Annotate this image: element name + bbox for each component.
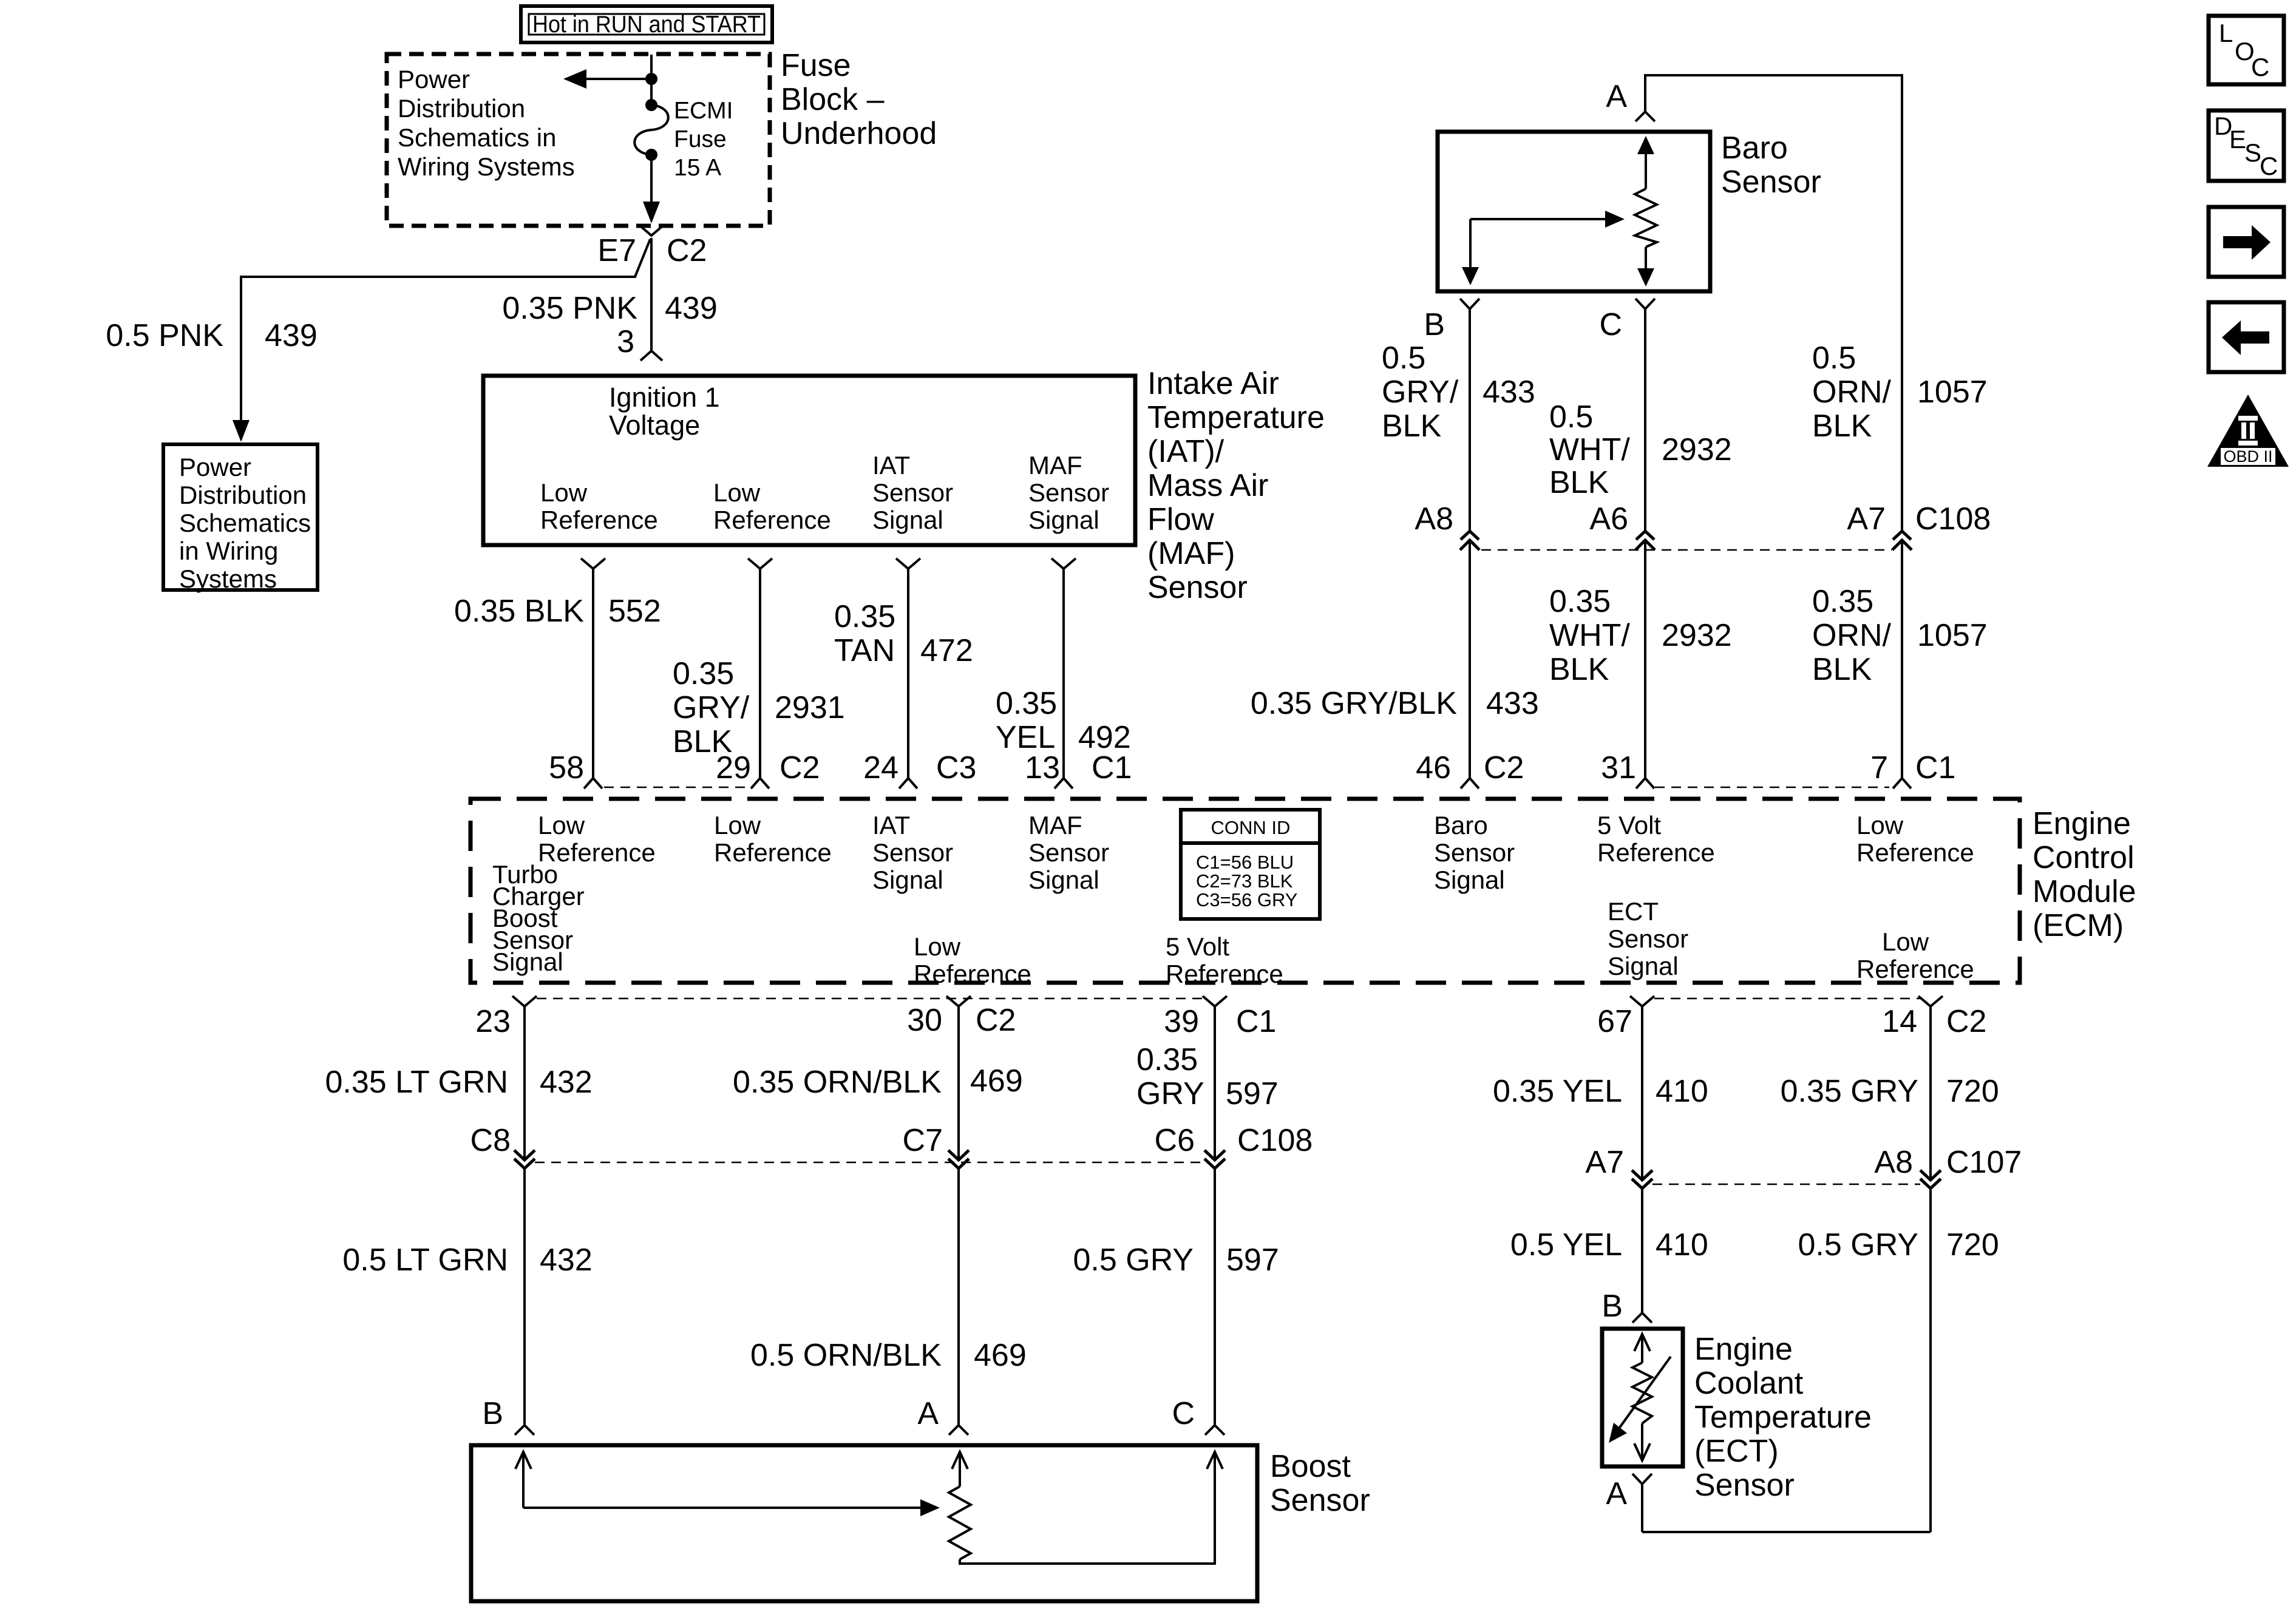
svg-text:24: 24 bbox=[863, 750, 898, 785]
wire: fuse output arrow down to connector C2 pin E7 bbox=[643, 155, 660, 223]
wire: dashed inline connector C108 row bbox=[1481, 549, 1892, 551]
svg-text:Sensor: Sensor bbox=[1434, 838, 1515, 867]
label: ECM pin 46 C2 bbox=[1416, 750, 1524, 785]
svg-text:C107: C107 bbox=[1946, 1145, 2022, 1180]
svg-text:Sensor: Sensor bbox=[1028, 838, 1109, 867]
label: 0.5 YEL 410 bbox=[1510, 1227, 1708, 1263]
label: ECM Low Reference (pin 7) bbox=[1856, 811, 1974, 867]
svg-text:Low: Low bbox=[714, 811, 761, 839]
node: forward arrow icon bbox=[2209, 207, 2284, 277]
wire: pin 5 MAF Sensor Signal 0.35 YEL 492 bbox=[1051, 558, 1076, 788]
svg-text:GRY/: GRY/ bbox=[673, 690, 750, 725]
label: ECM pin 24 C3 bbox=[863, 750, 976, 785]
node: Power Distribution Schematics in Wiring Systems (reference box) bbox=[163, 444, 318, 593]
svg-text:Signal: Signal bbox=[1028, 866, 1099, 894]
svg-text:0.35: 0.35 bbox=[834, 599, 895, 634]
wire: ECT pin A return to 720 bbox=[1642, 1531, 1931, 1533]
svg-text:GRY/: GRY/ bbox=[1382, 375, 1459, 410]
connector: pin 3 of IAT/MAF sensor bbox=[640, 351, 662, 361]
svg-text:58: 58 bbox=[549, 750, 584, 785]
node: back arrow icon bbox=[2209, 302, 2284, 372]
svg-text:31: 31 bbox=[1601, 750, 1636, 785]
svg-text:472: 472 bbox=[920, 633, 973, 668]
svg-text:A6: A6 bbox=[1589, 501, 1628, 537]
svg-text:A7: A7 bbox=[1847, 501, 1886, 537]
svg-text:0.5 YEL: 0.5 YEL bbox=[1510, 1227, 1622, 1263]
svg-text:C2: C2 bbox=[1946, 1004, 1986, 1039]
svg-text:C6: C6 bbox=[1155, 1123, 1195, 1158]
svg-text:469: 469 bbox=[970, 1063, 1023, 1099]
svg-text:Mass Air: Mass Air bbox=[1147, 468, 1268, 503]
svg-text:Voltage: Voltage bbox=[609, 410, 700, 441]
wire: 0.5 PNK 439 branch to Power Distribution Schematics bbox=[233, 239, 650, 442]
node: Hot in RUN and START title box bbox=[521, 6, 772, 42]
connector: ECM pin 39 bbox=[1203, 996, 1227, 1160]
svg-text:13: 13 bbox=[1025, 750, 1060, 785]
svg-text:5 Volt: 5 Volt bbox=[1597, 811, 1661, 839]
svg-text:C2: C2 bbox=[976, 1003, 1016, 1038]
connector: ECM pin 14 bbox=[1918, 996, 1943, 1180]
label: Engine Control Module (ECM) bbox=[2033, 806, 2136, 943]
svg-text:CONN ID: CONN ID bbox=[1211, 817, 1291, 838]
svg-text:ORN/: ORN/ bbox=[1812, 618, 1892, 653]
svg-text:C108: C108 bbox=[1915, 501, 1991, 537]
svg-text:0.5 GRY: 0.5 GRY bbox=[1073, 1242, 1194, 1278]
label: 0.35 ORN/BLK 1057 bbox=[1812, 584, 1988, 687]
component: IAT/MAF sensor box bbox=[483, 376, 1135, 545]
svg-text:Reference: Reference bbox=[713, 506, 831, 534]
wire: dashed link pins 31-7 bbox=[1655, 787, 1889, 788]
svg-text:WHT/: WHT/ bbox=[1549, 618, 1630, 653]
svg-text:29: 29 bbox=[716, 750, 751, 785]
svg-text:2931: 2931 bbox=[775, 690, 845, 725]
connector C108 pin A6 bbox=[1635, 531, 1655, 550]
wire: dashed link pins 23-30-39 bbox=[537, 998, 1204, 1000]
svg-text:Reference: Reference bbox=[1597, 838, 1715, 867]
svg-text:Low: Low bbox=[914, 932, 961, 961]
svg-text:410: 410 bbox=[1656, 1227, 1708, 1263]
svg-text:Engine: Engine bbox=[2033, 806, 2131, 841]
svg-text:39: 39 bbox=[1164, 1004, 1199, 1039]
svg-text:Fuse: Fuse bbox=[781, 48, 851, 83]
svg-text:Block –: Block – bbox=[781, 82, 885, 117]
svg-text:Sensor: Sensor bbox=[1147, 570, 1248, 605]
svg-text:Flow: Flow bbox=[1147, 502, 1214, 537]
connector C107 pin A7 bbox=[1632, 1170, 1652, 1188]
label: ECM Turbo Charger Boost Sensor Signal bbox=[492, 860, 585, 976]
wire: pin 2 IAT Sensor Signal 0.35 TAN 472 bbox=[896, 558, 920, 788]
label: ECM MAF Sensor Signal bbox=[1028, 811, 1109, 894]
svg-text:0.35: 0.35 bbox=[1136, 1042, 1198, 1077]
svg-text:Baro: Baro bbox=[1434, 811, 1488, 839]
svg-text:Sensor: Sensor bbox=[872, 478, 953, 507]
component: Engine Coolant Temperature (ECT) Sensor box bbox=[1602, 1329, 1683, 1466]
svg-text:BLK: BLK bbox=[1382, 408, 1442, 444]
label: ECM Low Reference (pin 30) bbox=[914, 932, 1031, 988]
wire: 0.35 WHT/BLK 2932 to ECM pin 31 bbox=[1636, 540, 1654, 788]
svg-text:C3=56 GRY: C3=56 GRY bbox=[1196, 889, 1297, 910]
svg-text:B: B bbox=[1601, 1289, 1623, 1324]
svg-text:0.5: 0.5 bbox=[1549, 399, 1593, 435]
svg-text:597: 597 bbox=[1226, 1076, 1279, 1111]
svg-text:0.35 GRY: 0.35 GRY bbox=[1781, 1074, 1918, 1109]
label: C6 C108 bbox=[1155, 1123, 1313, 1158]
svg-text:C2: C2 bbox=[667, 233, 707, 268]
svg-text:Control: Control bbox=[2033, 840, 2135, 875]
wire: baro wiper arrow bbox=[1462, 211, 1625, 285]
node: LOC icon bbox=[2209, 16, 2284, 84]
svg-text:439: 439 bbox=[265, 318, 318, 353]
svg-text:Reference: Reference bbox=[540, 506, 658, 534]
wire: dashed link pins 58-29 bbox=[604, 787, 750, 788]
svg-text:0.35 ORN/BLK: 0.35 ORN/BLK bbox=[733, 1065, 942, 1100]
svg-text:BLK: BLK bbox=[1812, 652, 1872, 687]
svg-text:Low: Low bbox=[1856, 811, 1904, 839]
svg-text:Baro: Baro bbox=[1721, 131, 1788, 166]
svg-text:Wiring Systems: Wiring Systems bbox=[398, 152, 575, 181]
svg-text:Low: Low bbox=[540, 478, 588, 507]
label: 0.35 GRY 720 bbox=[1781, 1074, 1999, 1109]
svg-text:1057: 1057 bbox=[1917, 375, 1988, 410]
svg-text:IAT: IAT bbox=[872, 811, 910, 839]
svg-text:A: A bbox=[917, 1396, 939, 1431]
svg-text:C108: C108 bbox=[1237, 1123, 1313, 1158]
svg-text:IAT: IAT bbox=[872, 451, 910, 480]
connector C8 bbox=[514, 1150, 535, 1168]
svg-text:MAF: MAF bbox=[1028, 811, 1082, 839]
svg-text:BLK: BLK bbox=[1549, 465, 1609, 500]
svg-text:720: 720 bbox=[1946, 1227, 1999, 1263]
svg-text:Signal: Signal bbox=[1608, 952, 1679, 980]
label: ECM pin 30 C2 bbox=[907, 1003, 1016, 1038]
node: DESC icon bbox=[2209, 110, 2284, 181]
label: 0.5 LT GRN 432 bbox=[342, 1242, 592, 1278]
svg-text:C7: C7 bbox=[903, 1123, 943, 1158]
svg-text:Reference: Reference bbox=[1856, 838, 1974, 867]
svg-text:Low: Low bbox=[713, 478, 761, 507]
svg-text:C: C bbox=[1172, 1396, 1195, 1431]
svg-text:2932: 2932 bbox=[1662, 618, 1732, 653]
label: 0.35 GRY/BLK 433 bbox=[1251, 686, 1539, 721]
node: junction dot bbox=[645, 73, 657, 85]
label: ECM Low Reference (pin 14) bbox=[1856, 927, 1974, 983]
svg-text:A8: A8 bbox=[1415, 501, 1453, 537]
label: A8 C107 bbox=[1874, 1145, 2022, 1180]
svg-text:0.35 YEL: 0.35 YEL bbox=[1493, 1074, 1622, 1109]
svg-text:Module: Module bbox=[2033, 874, 2136, 909]
svg-text:410: 410 bbox=[1656, 1074, 1708, 1109]
svg-text:A: A bbox=[1606, 1476, 1627, 1511]
svg-text:3: 3 bbox=[617, 324, 634, 359]
svg-text:Power: Power bbox=[179, 453, 251, 481]
svg-text:Schematics: Schematics bbox=[179, 509, 311, 537]
wire: 0.5 GRY 597 to Boost pin C bbox=[1205, 1168, 1224, 1435]
svg-text:552: 552 bbox=[608, 594, 661, 629]
wire: 0.5 GRY 720 to ECT pin A loop bbox=[1929, 1188, 1932, 1532]
svg-text:C2: C2 bbox=[779, 750, 820, 785]
svg-text:Systems: Systems bbox=[179, 564, 277, 593]
label: 0.35 LT GRN 432 bbox=[325, 1065, 592, 1100]
wire: Baro pin A to 0.5 ORN/BLK 1057 loop bbox=[1645, 75, 1902, 531]
svg-text:1057: 1057 bbox=[1917, 618, 1988, 653]
svg-text:0.5 ORN/BLK: 0.5 ORN/BLK bbox=[750, 1338, 942, 1373]
label: ECM Low Reference (pin 58) bbox=[538, 811, 656, 867]
wire: dashed inline connector row C107 bbox=[1652, 1184, 1920, 1185]
connector C2 pin E7 (fuse block output) bbox=[639, 225, 664, 236]
connector: ECT pin A bbox=[1632, 1474, 1652, 1532]
svg-text:MAF: MAF bbox=[1028, 451, 1082, 480]
svg-text:C2: C2 bbox=[1484, 750, 1524, 785]
svg-text:Signal: Signal bbox=[492, 947, 563, 976]
wire: dashed link pins 67-14 bbox=[1654, 998, 1920, 1000]
wire: dashed inline connector row C8-C7-C6 bbox=[535, 1162, 1204, 1164]
svg-text:0.5: 0.5 bbox=[1812, 341, 1856, 376]
svg-text:0.5 LT GRN: 0.5 LT GRN bbox=[342, 1242, 508, 1278]
svg-text:C1: C1 bbox=[1236, 1004, 1276, 1039]
label: 0.5 GRY 720 bbox=[1798, 1227, 1999, 1263]
svg-text:0.35 BLK: 0.35 BLK bbox=[454, 594, 584, 629]
svg-text:Sensor: Sensor bbox=[1028, 478, 1109, 507]
resistor: ECT thermistor element bbox=[1609, 1334, 1671, 1460]
label: A7 C108 bbox=[1847, 501, 1991, 537]
svg-text:C1: C1 bbox=[1092, 750, 1132, 785]
svg-text:C1=56 BLU: C1=56 BLU bbox=[1196, 852, 1294, 873]
svg-text:Engine: Engine bbox=[1694, 1332, 1793, 1367]
svg-text:Sensor: Sensor bbox=[1608, 924, 1688, 953]
connector: Baro pin C bbox=[1635, 299, 1655, 531]
svg-text:B: B bbox=[1424, 307, 1445, 342]
label: Boost Sensor bbox=[1270, 1449, 1370, 1518]
svg-text:Sensor: Sensor bbox=[872, 838, 953, 867]
svg-text:Low: Low bbox=[538, 811, 585, 839]
label: ECM Baro Sensor Signal bbox=[1434, 811, 1515, 894]
svg-text:23: 23 bbox=[475, 1004, 511, 1039]
connector: ECM pin 30 bbox=[946, 996, 971, 1160]
label: 0.5 ORN/BLK 1057 (baro A upper) bbox=[1812, 341, 1988, 444]
svg-text:Reference: Reference bbox=[1856, 955, 1974, 983]
svg-text:433: 433 bbox=[1486, 686, 1539, 721]
wire: 0.5 LT GRN 432 to Boost pin B bbox=[515, 1168, 534, 1435]
svg-text:Intake Air: Intake Air bbox=[1147, 366, 1279, 401]
svg-text:720: 720 bbox=[1946, 1074, 1999, 1109]
svg-text:Reference: Reference bbox=[1166, 960, 1283, 988]
label: 0.35 TAN 472 bbox=[834, 599, 973, 668]
label: 0.35 ORN/BLK 469 bbox=[733, 1063, 1023, 1100]
svg-text:Temperature: Temperature bbox=[1694, 1400, 1872, 1435]
wire: boost internal resistor to pin C bbox=[960, 1452, 1223, 1564]
svg-text:C: C bbox=[2260, 152, 2278, 180]
svg-text:(MAF): (MAF) bbox=[1147, 536, 1235, 571]
label: 0.35 BLK 552 bbox=[454, 594, 661, 629]
svg-text:0.35: 0.35 bbox=[1812, 584, 1873, 619]
svg-text:BLK: BLK bbox=[1549, 652, 1609, 687]
svg-text:0.35 GRY/BLK: 0.35 GRY/BLK bbox=[1251, 686, 1457, 721]
label: 0.5 WHT/BLK 2932 (baro C upper) bbox=[1549, 399, 1732, 500]
svg-text:Underhood: Underhood bbox=[781, 116, 937, 151]
connector C6 bbox=[1204, 1150, 1225, 1168]
svg-text:46: 46 bbox=[1416, 750, 1451, 785]
svg-text:C8: C8 bbox=[470, 1123, 511, 1158]
component: Engine Control Module (ECM) dashed box bbox=[470, 799, 2020, 983]
svg-text:469: 469 bbox=[974, 1338, 1027, 1373]
svg-text:Fuse: Fuse bbox=[674, 126, 727, 152]
svg-text:L: L bbox=[2219, 19, 2233, 47]
svg-text:C: C bbox=[1599, 307, 1622, 342]
svg-text:B: B bbox=[482, 1396, 503, 1431]
wire: boost internal pin B wiper feed bbox=[515, 1452, 940, 1516]
svg-text:Sensor: Sensor bbox=[1270, 1483, 1370, 1518]
svg-text:C3: C3 bbox=[936, 750, 976, 785]
svg-text:Coolant: Coolant bbox=[1694, 1366, 1804, 1401]
svg-text:30: 30 bbox=[907, 1003, 942, 1038]
svg-text:14: 14 bbox=[1882, 1004, 1917, 1039]
label: Intake Air Temperature (IAT)/ Mass Air Flow (MAF) Sensor bbox=[1147, 366, 1325, 605]
label: ECM pin 29 C2 bbox=[716, 750, 820, 785]
node: CONN ID legend box bbox=[1181, 810, 1320, 919]
svg-text:BLK: BLK bbox=[1812, 408, 1872, 444]
label: ECM 5 Volt Reference (pin 31) bbox=[1597, 811, 1715, 867]
connector: ECM pin 23 bbox=[512, 996, 537, 1160]
label: ECM 5 Volt Reference (pin 39) bbox=[1166, 932, 1283, 988]
label: Engine Coolant Temperature (ECT) Sensor bbox=[1694, 1332, 1872, 1503]
component: Boost Sensor box bbox=[471, 1445, 1257, 1601]
wire: 0.35 GRY/BLK 433 to ECM pin 46 bbox=[1461, 540, 1479, 788]
label: Baro Sensor bbox=[1721, 131, 1821, 200]
svg-text:WHT/: WHT/ bbox=[1549, 432, 1630, 467]
svg-text:Boost: Boost bbox=[1270, 1449, 1351, 1484]
svg-text:2932: 2932 bbox=[1662, 432, 1732, 467]
svg-text:(ECT): (ECT) bbox=[1694, 1434, 1779, 1469]
svg-text:0.5 PNK: 0.5 PNK bbox=[106, 318, 223, 353]
svg-text:Reference: Reference bbox=[714, 838, 832, 867]
svg-text:0.35 LT GRN: 0.35 LT GRN bbox=[325, 1065, 508, 1100]
svg-text:433: 433 bbox=[1483, 375, 1535, 410]
svg-text:OBD II: OBD II bbox=[2223, 447, 2272, 466]
label: ECM pin 39 C1 bbox=[1164, 1004, 1276, 1039]
svg-text:0.5 GRY: 0.5 GRY bbox=[1798, 1227, 1918, 1263]
label: 0.35 GRY/BLK 2931 bbox=[673, 656, 845, 759]
connector C7 bbox=[948, 1150, 969, 1168]
resistor: baro potentiometer element bbox=[1635, 136, 1657, 286]
node: OBD II icon bbox=[2207, 395, 2289, 467]
svg-text:A8: A8 bbox=[1874, 1145, 1913, 1180]
svg-text:Sensor: Sensor bbox=[1721, 164, 1821, 200]
label: 0.35 WHT/BLK 2932 bbox=[1549, 584, 1732, 687]
label: 0.35 YEL 410 bbox=[1493, 1074, 1708, 1109]
label: ECM pin 14 C2 bbox=[1882, 1004, 1986, 1039]
svg-text:15 A: 15 A bbox=[674, 155, 721, 181]
label: ECM ECT Sensor Signal bbox=[1608, 897, 1688, 980]
svg-text:A7: A7 bbox=[1585, 1145, 1624, 1180]
svg-text:432: 432 bbox=[540, 1242, 593, 1278]
svg-text:0.5: 0.5 bbox=[1382, 341, 1425, 376]
wire: pin 4 Low Reference 0.35 GRY/BLK 2931 bbox=[748, 558, 772, 788]
resistor: boost potentiometer element bbox=[949, 1452, 971, 1559]
svg-text:E7: E7 bbox=[597, 233, 636, 268]
label: ECM pin 7 C1 bbox=[1870, 750, 1955, 785]
label: ECM Low Reference (pin 29) bbox=[714, 811, 832, 867]
svg-text:Temperature: Temperature bbox=[1147, 400, 1325, 435]
svg-text:S: S bbox=[2244, 138, 2261, 167]
svg-text:Distribution: Distribution bbox=[398, 94, 525, 123]
svg-text:Reference: Reference bbox=[914, 960, 1031, 988]
wire: arrow to Power Distribution Schematics (left) bbox=[563, 69, 651, 89]
connector C108 pin A7 bbox=[1892, 531, 1912, 550]
wire: 0.5 YEL 410 to ECT pin B bbox=[1632, 1188, 1652, 1323]
wire: pin 1 Low Reference 0.35 BLK 552 bbox=[581, 558, 605, 788]
svg-text:C2=73 BLK: C2=73 BLK bbox=[1196, 870, 1293, 892]
connector: ECM pin 67 bbox=[1630, 996, 1654, 1180]
svg-text:ECMI: ECMI bbox=[674, 98, 733, 124]
svg-text:Signal: Signal bbox=[1028, 506, 1099, 534]
svg-text:0.35 PNK: 0.35 PNK bbox=[502, 291, 637, 326]
svg-text:67: 67 bbox=[1597, 1004, 1632, 1039]
svg-text:C1: C1 bbox=[1915, 750, 1955, 785]
connector: Baro pin B bbox=[1460, 299, 1479, 531]
svg-text:0.35: 0.35 bbox=[673, 656, 734, 691]
label: ECM IAT Sensor Signal bbox=[872, 811, 953, 894]
svg-text:439: 439 bbox=[665, 291, 718, 326]
svg-text:Signal: Signal bbox=[1434, 866, 1505, 894]
svg-text:C: C bbox=[2251, 53, 2269, 81]
svg-text:Signal: Signal bbox=[872, 506, 943, 534]
svg-text:TAN: TAN bbox=[834, 633, 895, 668]
label: 0.35 GRY 597 bbox=[1136, 1042, 1279, 1111]
component: Baro Sensor box bbox=[1438, 132, 1710, 291]
connector C107 pin A8 bbox=[1920, 1170, 1941, 1188]
svg-text:(IAT)/: (IAT)/ bbox=[1147, 434, 1224, 469]
svg-text:Signal: Signal bbox=[872, 866, 943, 894]
svg-text:432: 432 bbox=[540, 1065, 593, 1100]
svg-text:5 Volt: 5 Volt bbox=[1166, 932, 1229, 961]
svg-text:E: E bbox=[2229, 125, 2246, 154]
svg-text:ORN/: ORN/ bbox=[1812, 375, 1892, 410]
svg-text:A: A bbox=[1606, 79, 1627, 114]
wire: 0.35 PNK 439 down to IAT/MAF sensor bbox=[650, 238, 653, 351]
svg-text:Low: Low bbox=[1882, 927, 1929, 956]
wire: 0.35 ORN/BLK 1057 to ECM pin 7 bbox=[1893, 540, 1911, 788]
wire: 0.5 ORN/BLK 469 to Boost pin A bbox=[949, 1168, 968, 1435]
label: 0.35 YEL 492 bbox=[996, 686, 1131, 755]
svg-text:Sensor: Sensor bbox=[1694, 1468, 1795, 1503]
svg-text:0.35: 0.35 bbox=[1549, 584, 1611, 619]
label: ECM pin 13 C1 bbox=[1025, 750, 1132, 785]
label: Fuse Block - Underhood bbox=[781, 48, 937, 151]
svg-text:Power: Power bbox=[398, 65, 470, 93]
svg-text:in Wiring: in Wiring bbox=[179, 537, 278, 565]
svg-text:Hot in RUN and START: Hot in RUN and START bbox=[532, 12, 761, 38]
svg-text:ECT: ECT bbox=[1608, 897, 1659, 926]
svg-text:Schematics in: Schematics in bbox=[398, 123, 556, 152]
connector C108 pin A8 bbox=[1460, 531, 1479, 550]
svg-text:0.35: 0.35 bbox=[996, 686, 1057, 721]
label: 0.5 GRY/BLK 433 (baro B upper) bbox=[1382, 341, 1535, 444]
fuse F: ECMI Fuse 15 A bbox=[634, 98, 733, 181]
connector: Baro pin A bbox=[1635, 112, 1655, 121]
svg-text:597: 597 bbox=[1226, 1242, 1279, 1278]
component: Fuse Block - Underhood (dashed box) bbox=[387, 54, 770, 226]
svg-text:7: 7 bbox=[1870, 750, 1888, 785]
svg-text:GRY: GRY bbox=[1136, 1076, 1204, 1111]
label: 0.5 ORN/BLK 469 bbox=[750, 1338, 1027, 1373]
svg-text:Ignition 1: Ignition 1 bbox=[609, 382, 720, 413]
svg-text:Distribution: Distribution bbox=[179, 481, 307, 509]
svg-text:(ECM): (ECM) bbox=[2033, 908, 2124, 943]
label: 0.5 GRY 597 bbox=[1073, 1242, 1279, 1278]
wire: feed from Hot in RUN into fuse block bbox=[650, 55, 653, 105]
